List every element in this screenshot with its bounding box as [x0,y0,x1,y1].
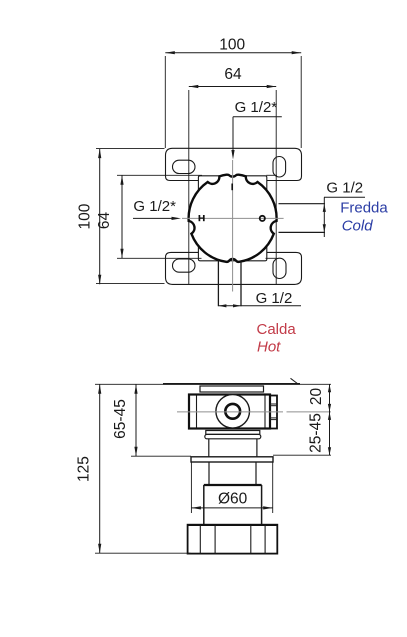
svg-text:100: 100 [219,36,245,53]
svg-text:G 1/2*: G 1/2* [133,198,176,215]
svg-text:64: 64 [224,66,242,83]
svg-text:G 1/2: G 1/2 [256,290,293,307]
svg-text:64: 64 [96,212,113,230]
svg-text:Cold: Cold [342,217,374,234]
svg-text:65-45: 65-45 [112,399,129,439]
svg-text:G 1/2: G 1/2 [326,180,363,197]
svg-text:125: 125 [76,456,93,482]
svg-text:20: 20 [308,388,325,406]
svg-text:Fredda: Fredda [340,199,388,216]
svg-text:Ø60: Ø60 [218,490,248,507]
svg-text:Calda: Calda [257,321,297,338]
svg-text:Hot: Hot [257,339,281,356]
svg-text:G 1/2*: G 1/2* [235,99,278,116]
svg-text:25-45: 25-45 [307,413,324,453]
svg-text:100: 100 [77,203,94,229]
